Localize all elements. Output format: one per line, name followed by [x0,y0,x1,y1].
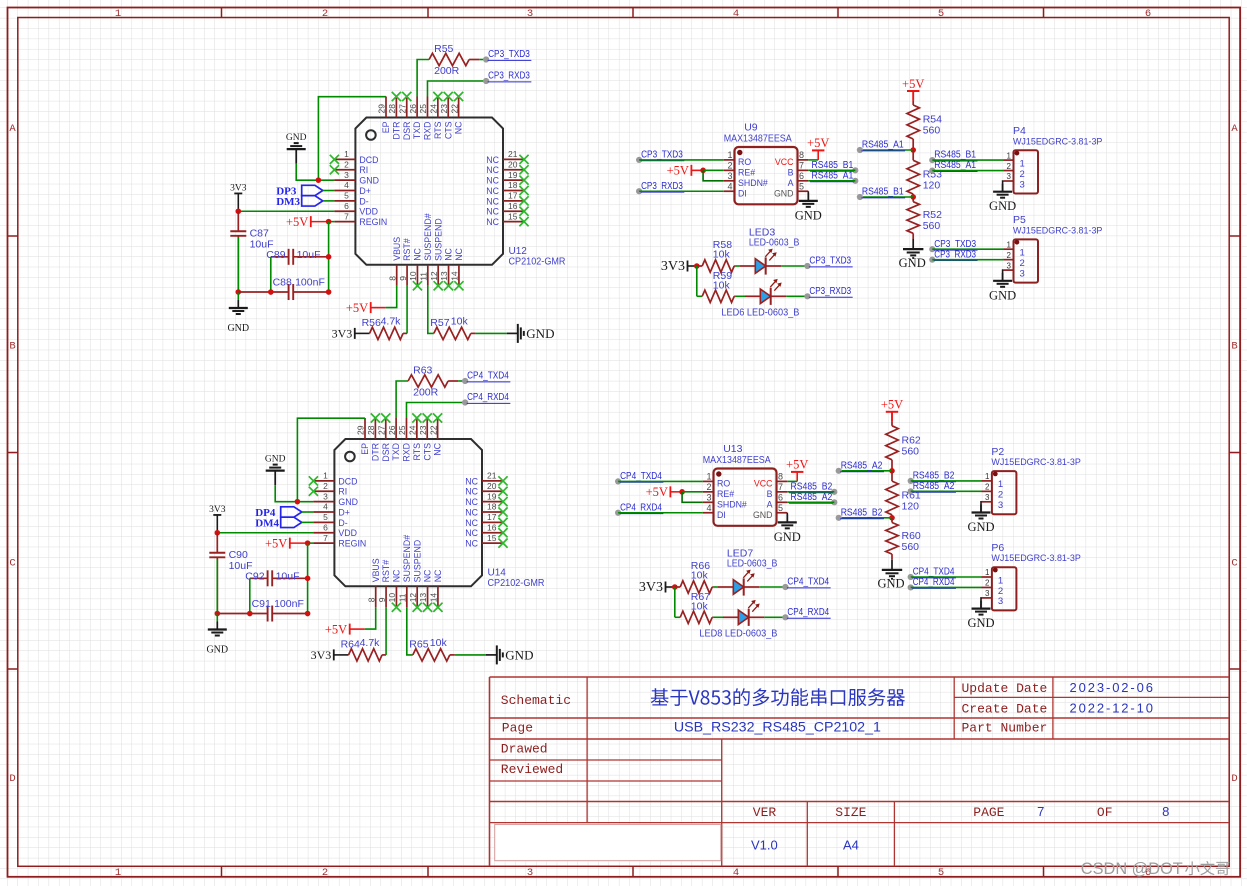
svg-text:RO: RO [738,157,751,167]
svg-text:8: 8 [778,471,783,481]
wire C to GND rail [237,237,239,292]
U9 right pin stubs [798,160,809,191]
svg-text:5: 5 [938,8,944,20]
svg-text:DM4: DM4 [255,517,279,529]
U9 right pin numbers [799,150,804,191]
svg-text:A4: A4 [843,838,859,853]
resistor R62 560 [891,412,893,422]
wire RE# to SHDN# pin 3 [703,170,724,180]
P4 pin-1 dot [1015,151,1020,156]
svg-text:SHDN#: SHDN# [717,500,747,510]
U14 left pin names [338,476,366,548]
svg-text:16: 16 [508,201,518,211]
resistor R54 560 [912,91,914,101]
wire CP4_TXD4 to RO pin 1 [618,480,703,482]
svg-text:DCD: DCD [359,155,378,165]
svg-text:DI: DI [717,510,726,520]
svg-text:VDD: VDD [359,207,378,217]
svg-text:7: 7 [323,533,328,543]
svg-text:NC: NC [444,247,454,260]
svg-text:LED-0603_B: LED-0603_B [727,558,778,570]
svg-text:26: 26 [387,425,397,435]
wire RS485_B1 to pin 1 [932,159,1003,161]
svg-text:CP4_TXD4: CP4_TXD4 [620,471,662,482]
svg-text:25: 25 [418,104,428,114]
LED LED8 LED-0603_B [723,616,738,618]
svg-text:10k: 10k [713,249,731,261]
svg-text:4: 4 [323,502,328,512]
svg-text:RTS: RTS [433,121,443,139]
svg-text:10k: 10k [691,570,709,582]
U14 no-connect marks right pins [498,476,507,547]
svg-text:+5V: +5V [346,301,368,315]
wire DM3 to D- pin 5 [323,200,334,202]
svg-text:A: A [788,178,794,188]
svg-text:2: 2 [998,586,1003,597]
svg-text:RS485_B1: RS485_B1 [862,187,904,198]
net label CP4_RXD4 at U13 DI [615,510,621,516]
svg-text:VCC: VCC [754,479,773,489]
svg-text:CP3_RXD3: CP3_RXD3 [934,249,976,260]
wire to net label CP4_TXD4 [458,380,465,382]
wire C to GND rail [216,559,218,614]
ground symbol above U12 [295,149,297,164]
connector P5 WJ15EDGRC-3.81-3P body [1014,239,1039,282]
svg-text:2: 2 [322,8,328,20]
svg-text:3: 3 [998,596,1003,607]
net label CP3_TXD3 at U9 RO [636,157,642,163]
svg-text:20: 20 [487,481,497,491]
svg-text:CP4_TXD4: CP4_TXD4 [787,577,829,588]
wire C89 left down [249,578,251,613]
svg-text:1: 1 [323,471,328,481]
resistor R56 4.7k [370,327,404,339]
+5V flag at U13 VCC [791,471,803,473]
junction 3V3 [694,263,700,269]
svg-text:3: 3 [323,491,328,501]
resistor R67 10k [675,616,680,618]
junction GND rail left [236,289,242,295]
svg-text:7: 7 [344,211,349,221]
ground symbol sideways [507,332,518,334]
wire pin 3 to ground [980,598,983,609]
wire REGIN vertical to caps [328,222,330,292]
svg-text:18: 18 [508,180,518,190]
net label CP4_RXD4 [782,614,788,620]
ground symbol below cap rail [216,622,218,630]
svg-text:2: 2 [998,490,1003,501]
svg-text:2023-02-06: 2023-02-06 [1070,680,1154,695]
wire EP pin 29 to GND [297,418,365,501]
P2 pin stubs [982,481,992,502]
svg-text:GND: GND [359,176,379,186]
svg-text:OF: OF [1097,805,1113,820]
svg-text:+5V: +5V [807,136,829,150]
svg-text:2: 2 [1020,258,1025,269]
junction RS485_B1 [910,194,916,200]
ground symbol at P4 [1002,184,1004,192]
svg-text:1: 1 [344,149,349,159]
svg-text:5: 5 [778,503,783,513]
svg-text:P6: P6 [991,542,1004,554]
wire CP4_TXD4 to pin 1 [911,576,982,578]
net label RS485_A2 at U13 A [831,499,837,505]
svg-text:13: 13 [439,271,449,281]
svg-text:+5V: +5V [286,215,308,229]
svg-text:11: 11 [398,593,408,602]
svg-text:19: 19 [487,491,497,501]
svg-text:V1.0: V1.0 [751,838,778,853]
P2 inside pin numbers [998,479,1003,511]
U12 right pin numbers [508,149,518,221]
svg-text:C92: C92 [245,570,264,582]
wire CP3_TXD3 to pin 1 [932,248,1003,250]
wire EP pin 29 to GND [318,97,386,180]
wire to net label CP3_TXD3 [479,59,486,61]
svg-text:GND: GND [967,616,994,630]
wire LED8 to net label [764,616,785,618]
svg-text:2: 2 [706,482,711,492]
svg-text:GND: GND [795,208,822,222]
svg-text:27: 27 [397,104,407,114]
wire +5V to VBUS pin 8 [386,286,397,308]
svg-text:REGIN: REGIN [359,217,387,227]
svg-text:120: 120 [902,501,920,513]
svg-text:NC: NC [392,569,402,582]
power flag 3V3 at VDD [234,192,242,194]
junction at REGIN [305,540,311,546]
capacitor C91 100nF [217,613,267,615]
frame row labels left [9,123,16,785]
svg-text:U12: U12 [509,246,528,257]
svg-text:A: A [1231,123,1238,135]
+5V flag above R54 [907,90,919,92]
svg-text:28: 28 [366,425,376,435]
svg-text:CP4_TXD4: CP4_TXD4 [467,371,509,382]
wire B pin 7 to RS485_B1 [808,169,855,171]
junction 3V3 [672,584,678,590]
resistor R65 10k [413,649,450,661]
svg-text:D: D [9,773,15,785]
svg-text:RE#: RE# [738,168,755,178]
svg-text:15: 15 [487,533,497,543]
wire A pin 6 to RS485_A1 [808,180,855,182]
svg-text:P5: P5 [1013,214,1026,226]
junction at REGIN [326,219,332,225]
svg-text:CTS: CTS [443,121,453,139]
wire +5V to RE# pin 2 [703,169,724,171]
svg-text:2: 2 [727,160,732,170]
net label RS485_B2 [836,515,842,521]
svg-text:NC: NC [465,507,478,517]
svg-text:NC: NC [454,121,464,134]
svg-text:RS485_B2: RS485_B2 [841,507,883,518]
svg-text:100nF: 100nF [295,277,325,289]
wire GND to pin 3 [275,485,313,502]
capacitor C89 10uF [271,256,289,258]
svg-text:21: 21 [508,149,518,159]
svg-text:RS485_A1: RS485_A1 [934,160,976,171]
svg-text:7: 7 [778,482,783,492]
wire VCC pin 8 to +5V [808,159,818,161]
svg-text:GND: GND [227,323,249,334]
svg-text:WJ15EDGRC-3.81-3P: WJ15EDGRC-3.81-3P [991,553,1080,564]
svg-text:NC: NC [486,217,499,227]
svg-text:+5V: +5V [325,622,347,636]
svg-text:2: 2 [1020,169,1025,180]
svg-text:RST#: RST# [402,238,412,261]
svg-text:21: 21 [487,471,497,481]
svg-text:2: 2 [344,159,349,169]
svg-text:+5V: +5V [265,536,287,550]
svg-text:A: A [9,123,16,135]
U14 no-connect marks bottom pins [392,603,443,612]
svg-text:1: 1 [1020,248,1025,259]
P5 pin stubs [1003,249,1013,270]
svg-text:6: 6 [799,171,804,181]
svg-text:1: 1 [998,575,1003,586]
power flag 3V3 at LED resistors [665,582,667,593]
LED LED6 LED-0603_B [745,295,760,297]
svg-text:29: 29 [377,104,387,114]
U12 top pin stubs [386,97,459,118]
U9 left pin numbers [727,150,732,191]
svg-text:Page: Page [502,721,533,736]
net label RS485_A1 at U9 A [852,178,858,184]
power flag 3V3 at reset resistor [354,328,356,339]
svg-text:3: 3 [706,492,711,502]
svg-text:3: 3 [1020,268,1025,279]
svg-text:R57: R57 [430,317,449,329]
svg-text:19: 19 [508,170,518,180]
net label RS485_A1 [857,147,863,153]
svg-text:1: 1 [706,471,711,481]
P6 pin stubs [982,577,992,598]
svg-text:R65: R65 [409,638,428,650]
resistor R59 10k [697,295,702,297]
wire GND pin 5 down [786,513,788,523]
+5V flag at REGIN [310,216,312,227]
wire to net label RS485_B2 [839,517,892,519]
net label RS485_B1 [857,194,863,200]
net label RS485_A2 [836,468,842,474]
ground symbol at P6 [980,601,982,609]
svg-text:Drawed: Drawed [501,742,548,757]
svg-text:16: 16 [487,522,497,532]
svg-text:3: 3 [527,8,533,20]
wire LED3 to net label [781,265,807,267]
svg-text:NC: NC [454,247,464,260]
junction 3V3/VDD [236,208,242,214]
svg-text:560: 560 [902,445,920,457]
resistor R64 4.7k [349,649,383,661]
svg-text:GND: GND [774,530,801,544]
svg-text:200R: 200R [434,65,460,77]
svg-text:RS485_B1: RS485_B1 [934,150,976,161]
svg-text:C88: C88 [273,277,292,289]
svg-text:GND: GND [505,648,533,663]
svg-text:DTR: DTR [391,122,401,140]
wire R to GND bar [476,332,507,334]
U12 bottom pin stubs [397,265,459,286]
ground symbol below R52 [912,239,914,249]
svg-text:WJ15EDGRC-3.81-3P: WJ15EDGRC-3.81-3P [1013,136,1102,147]
net label CP4_TXD4 [462,378,468,384]
frame column ticks top [222,8,1044,18]
wire CP4_RXD4 to pin 2 [911,586,982,588]
P4 outside pin numbers [1007,151,1012,181]
svg-text:B: B [9,341,15,353]
net label CP3_RXD3 [483,78,489,84]
svg-text:3: 3 [527,867,533,879]
svg-text:13: 13 [418,593,428,603]
U14 left pin numbers [323,471,328,543]
wire to net label RS485_B1 [860,196,913,198]
U12 no-connect marks right pins [519,155,528,226]
wire C89 left down [270,257,272,292]
wire RS485_A1 to pin 2 [932,170,1003,172]
U13 right pin stubs [777,481,788,512]
+5V flag at U9 RE# [690,165,692,176]
svg-text:C91: C91 [252,598,271,610]
wire RS485_B2 to pin 1 [911,480,982,482]
title block blank field box [495,824,721,860]
svg-text:CP3_TXD3: CP3_TXD3 [809,256,851,267]
junction C89 right [326,254,332,260]
capacitor C88 100nF [238,291,288,293]
wire to net label RS485_A2 [839,470,892,472]
junction RS485_B2 [889,515,895,521]
svg-text:Create Date: Create Date [962,702,1048,717]
svg-text:REGIN: REGIN [338,539,366,549]
svg-text:GND: GND [899,256,926,270]
U12 right pin names NC [486,155,499,227]
svg-text:CP3_RXD3: CP3_RXD3 [488,71,530,82]
resistor R53 120 [912,150,914,160]
svg-text:26: 26 [408,104,418,114]
svg-text:MAX13487EESA: MAX13487EESA [724,133,792,145]
LED LED7 LED-0603_B [718,586,733,588]
svg-text:22: 22 [449,104,459,114]
wire SUSPEND# pin 11 down [407,607,413,655]
svg-text:WJ15EDGRC-3.81-3P: WJ15EDGRC-3.81-3P [991,457,1080,468]
ground symbol at U9 pin 5 [807,193,809,201]
svg-text:RI: RI [359,165,368,175]
U14 bottom pin names [371,535,443,583]
svg-text:D: D [1231,773,1237,785]
P4 inside pin numbers [1020,158,1025,190]
svg-text:1: 1 [115,867,121,879]
svg-text:RI: RI [338,487,347,497]
wire 3V3 to VDD pin 6 [217,532,313,534]
svg-text:CSDN @DOT: CSDN @DOT [1081,860,1183,878]
wire 3V3 down to second resistor [674,587,676,617]
net label CP4_TXD4 at P6 pin 1 [908,574,914,580]
wire CP3_RXD3 from U12 RXD pin 25 [427,81,486,97]
svg-text:3: 3 [1007,261,1012,270]
power flag 3V3 at LED resistors [687,261,689,272]
U14 right pin numbers [487,471,497,543]
ground symbol below cap rail [237,300,239,308]
svg-text:+5V: +5V [786,458,808,472]
svg-text:1: 1 [1020,158,1025,169]
power flag 3V3 at reset resistor [333,649,335,660]
svg-text:TXD: TXD [412,122,422,140]
svg-text:DM3: DM3 [276,196,300,208]
svg-text:Reviewed: Reviewed [501,762,563,777]
svg-text:LED-0603_B: LED-0603_B [749,237,800,249]
net label RS485_A1 at P4 pin 2 [929,167,935,173]
svg-text:GND: GND [286,133,307,143]
svg-text:3: 3 [998,500,1003,511]
wire to LED7 [713,586,718,588]
svg-text:PAGE: PAGE [973,805,1004,820]
svg-text:NC: NC [486,165,499,175]
junction 3V3/VDD [215,530,221,536]
svg-text:DI: DI [738,189,747,199]
svg-text:NC: NC [413,247,423,260]
svg-text:P2: P2 [991,446,1004,458]
svg-text:SHDN#: SHDN# [738,178,768,188]
svg-text:3: 3 [1007,172,1012,181]
svg-text:1: 1 [998,479,1003,490]
U12 no-connect marks left pins [330,155,339,175]
wire R to RST# pin 9 [385,607,387,655]
svg-text:B: B [788,168,794,178]
junction C89 right [305,576,311,582]
svg-text:SIZE: SIZE [835,805,866,820]
svg-text:NC: NC [465,497,478,507]
resistor R57 10k [434,327,471,339]
svg-text:VCC: VCC [775,157,794,167]
svg-text:TXD: TXD [391,443,401,461]
svg-text:U14: U14 [488,567,507,578]
svg-text:24: 24 [429,104,439,114]
svg-text:DCD: DCD [338,476,357,486]
junction C88 left [268,289,274,295]
resistor R63 200R [408,375,448,387]
P5 pin-1 dot [1015,240,1020,245]
IC U12 CP2102-GMR body [355,118,503,265]
svg-text:DTR: DTR [370,443,380,461]
net label CP4_TXD4 [782,584,788,590]
svg-text:9: 9 [398,276,408,281]
U12 pin-1 indicator circle [366,130,376,140]
title block grid lines [490,677,1230,866]
net label CP3_TXD3 [804,263,810,269]
svg-text:LED8 LED-0603_B: LED8 LED-0603_B [699,628,777,640]
svg-text:VDD: VDD [338,528,357,538]
port DP4 [281,507,302,517]
wire GND to pin 3 [296,164,334,181]
svg-text:14: 14 [450,271,460,281]
schematic title text [651,688,905,706]
svg-text:C: C [9,558,15,570]
svg-text:SUSPEND: SUSPEND [412,540,422,583]
net label CP4_RXD4 at P6 pin 2 [908,584,914,590]
U12 bottom pin names [392,213,464,261]
U13 right pin numbers [778,471,783,512]
IC U9 MAX13487EESA body [735,147,798,204]
svg-text:10uF: 10uF [276,570,300,582]
wire R to GND bar [455,654,486,656]
svg-text:LED6 LED-0603_B: LED6 LED-0603_B [721,307,799,319]
wire to net label RS485_A1 [860,149,913,151]
wire R to RST# pin 9 [406,286,408,334]
svg-text:CP4_RXD4: CP4_RXD4 [620,502,662,513]
svg-text:4: 4 [344,180,349,190]
U14 pin-1 indicator circle [345,452,355,462]
